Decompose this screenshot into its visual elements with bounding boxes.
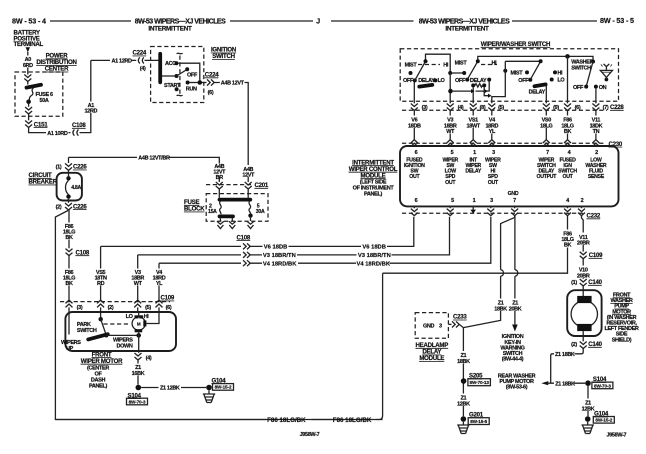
svg-text:(5): (5)	[145, 305, 151, 311]
svg-text:A4B 12VT/BR: A4B 12VT/BR	[138, 156, 170, 162]
connector C108 on A1 10RD	[73, 130, 79, 136]
svg-text:TERMINAL: TERMINAL	[14, 41, 44, 48]
C109 chevron pin 2	[97, 300, 104, 307]
svg-text:1: 1	[473, 150, 476, 156]
svg-text:6: 6	[415, 198, 418, 204]
svg-text:8W - 53 - 4: 8W - 53 - 4	[12, 17, 46, 26]
svg-text:(8W-44-4): (8W-44-4)	[502, 357, 524, 363]
svg-text:MODULE: MODULE	[419, 355, 444, 362]
wipers up contact bar	[88, 334, 108, 339]
svg-text:BK: BK	[564, 243, 572, 249]
svg-text:J: J	[316, 17, 320, 26]
svg-text:WIPER MOTOR: WIPER MOTOR	[81, 358, 123, 365]
header rule center-right	[331, 20, 414, 22]
front washer pump motor	[567, 290, 601, 336]
wire A0 6RD	[27, 52, 29, 75]
ignition mech dashed link	[177, 52, 183, 55]
arrow to ignition key-in warning switch	[512, 325, 518, 332]
wire V4 18RD/YL drop	[158, 263, 160, 300]
svg-text:7: 7	[513, 198, 516, 204]
svg-text:(6): (6)	[166, 305, 172, 311]
svg-text:SENSE: SENSE	[588, 174, 605, 180]
svg-text:A1 12RD: A1 12RD	[112, 59, 133, 65]
wire ACC to RUN junction	[178, 63, 199, 82]
C228 chevron pin 8	[470, 104, 477, 111]
svg-text:OFF: OFF	[518, 78, 529, 84]
svg-text:C109: C109	[589, 252, 603, 259]
wire breaker top drop	[68, 157, 70, 163]
svg-text:LO: LO	[126, 314, 134, 320]
C232 chevron pin 7	[511, 206, 518, 215]
connector C224 pin 6	[207, 79, 214, 85]
svg-text:C233: C233	[453, 314, 467, 321]
connector C108 chevron on V3	[243, 252, 250, 258]
svg-text:C228: C228	[610, 104, 624, 111]
svg-text:C224: C224	[205, 72, 219, 79]
junction dot ignition output	[198, 80, 203, 85]
power distribution center dashed box	[15, 72, 63, 116]
svg-text:3: 3	[439, 323, 442, 329]
connector C226 pin 2	[68, 199, 70, 203]
wire Z1 18BK washer to splice	[551, 349, 584, 384]
svg-text:PANEL): PANEL)	[89, 383, 107, 389]
svg-text:C226: C226	[73, 164, 87, 171]
svg-text:YL: YL	[156, 281, 163, 287]
svg-text:V6 18DB: V6 18DB	[362, 245, 386, 251]
C109 chevron pin 6	[156, 300, 163, 307]
svg-text:(3): (3)	[77, 305, 83, 311]
switch bus wire section1	[426, 54, 451, 71]
svg-text:C140: C140	[588, 341, 602, 348]
connector chevron inside PDC top	[24, 75, 31, 82]
svg-text:OUT: OUT	[409, 174, 420, 180]
svg-text:BLOCK: BLOCK	[184, 206, 205, 213]
connector C108 chevron on V6	[243, 243, 250, 249]
C228 chevron pin 6	[564, 104, 571, 111]
svg-text:(2): (2)	[571, 342, 577, 348]
svg-text:GND: GND	[423, 323, 435, 329]
svg-text:OUT: OUT	[488, 180, 499, 186]
svg-text:RD: RD	[97, 281, 105, 287]
wire HI1 to MIST2 dot	[450, 72, 464, 74]
connector C230 dashed line	[402, 142, 604, 144]
svg-text:18DB: 18DB	[408, 123, 421, 129]
svg-text:OFF: OFF	[573, 85, 584, 91]
splice S104	[136, 385, 142, 391]
header rule right	[512, 20, 597, 22]
svg-text:(4): (4)	[140, 66, 146, 72]
svg-text:LO: LO	[438, 78, 446, 84]
svg-text:V4 18RD/BK: V4 18RD/BK	[263, 262, 297, 268]
svg-text:TN: TN	[593, 129, 600, 135]
wire A4B 12VT to fuse block	[215, 83, 249, 166]
header rule left	[50, 20, 131, 22]
switch bus wire section2 to washer	[478, 56, 593, 61]
svg-text:12RD: 12RD	[84, 109, 97, 115]
park switch arm	[99, 317, 103, 321]
wire F86 18LG/BK breaker to motor pin 3	[68, 210, 70, 248]
svg-text:2: 2	[595, 150, 598, 156]
svg-text:8W-53 WIPERS—XJ VEHICLES: 8W-53 WIPERS—XJ VEHICLES	[419, 19, 510, 26]
connector C201 chevron right	[245, 182, 252, 189]
washer ON contact	[594, 85, 598, 89]
svg-text:SWITCH: SWITCH	[212, 53, 235, 60]
svg-text:F86 18LG/BK: F86 18LG/BK	[333, 417, 372, 424]
fuse 2 output chevrons	[217, 218, 224, 229]
svg-text:18WT: 18WT	[467, 123, 481, 129]
module pin 1 stub arrow	[472, 206, 474, 210]
svg-text:C226: C226	[73, 203, 87, 210]
svg-text:V6 18DB: V6 18DB	[264, 245, 288, 251]
internal dashed segments	[418, 64, 440, 66]
wire V51 18WT switch to module	[472, 111, 474, 140]
svg-text:A1 10RD: A1 10RD	[47, 131, 68, 137]
svg-text:(4): (4)	[146, 356, 152, 362]
svg-text:Z1 18BK: Z1 18BK	[555, 381, 575, 387]
svg-text:15A: 15A	[208, 209, 217, 215]
wire motor HI from pin 6	[146, 312, 159, 324]
C232 chevron pin 5	[447, 206, 454, 215]
C232 chevron pin 3	[487, 206, 494, 215]
wire to PDC bottom connector	[28, 103, 30, 107]
svg-text:INTERMITTENT: INTERMITTENT	[148, 26, 192, 33]
svg-text:12VT: 12VT	[242, 172, 255, 178]
section3 HI LO contacts	[553, 70, 557, 74]
connector C201 chevron left	[216, 182, 223, 189]
svg-text:20BK: 20BK	[509, 306, 522, 312]
svg-text:J958W-7: J958W-7	[300, 432, 320, 438]
svg-text:A4B 12VT: A4B 12VT	[221, 81, 245, 87]
svg-text:20BR: 20BR	[577, 241, 590, 247]
svg-text:5: 5	[451, 150, 454, 156]
wire F86 18LG/BK switch to module	[567, 111, 569, 140]
mech dashed link motor	[103, 323, 130, 325]
svg-text:3: 3	[492, 150, 495, 156]
wire V11 18DK/TN switch to module	[595, 111, 597, 140]
connector C108 chevron on F86	[66, 249, 73, 256]
wire pin7 drop	[595, 89, 597, 104]
svg-text:8W-53 WIPERS—XJ VEHICLES: 8W-53 WIPERS—XJ VEHICLES	[135, 19, 226, 26]
svg-text:GND: GND	[508, 191, 519, 197]
svg-text:HI: HI	[492, 60, 498, 66]
C232 chevron pin 4	[564, 206, 571, 215]
header rule center-left	[230, 20, 313, 22]
wire pin6 drop	[567, 56, 569, 103]
connector C201 dashed line	[206, 184, 268, 186]
wire V3 18BR/WT drop	[137, 255, 139, 300]
svg-text:START: START	[164, 83, 181, 89]
svg-text:BK: BK	[65, 281, 73, 287]
connector C109 on V11	[580, 252, 587, 259]
wire V10 20BR	[582, 259, 584, 279]
svg-text:SWITCH: SWITCH	[77, 328, 97, 334]
svg-text:WT: WT	[446, 129, 455, 135]
svg-text:LO: LO	[557, 78, 565, 84]
svg-text:SWITCH: SWITCH	[571, 65, 591, 71]
washer switch arm	[591, 60, 595, 64]
connector C109 dashed line	[60, 301, 170, 303]
wire ignition output to C224	[202, 82, 207, 84]
wire Z1 20BK to key-in switch	[515, 216, 518, 325]
svg-text:DELAY: DELAY	[529, 89, 546, 95]
svg-text:(2): (2)	[56, 204, 62, 210]
svg-text:BR: BR	[216, 175, 224, 181]
wire pin4 drop with junction	[449, 73, 451, 103]
fuse block dashed box	[206, 194, 268, 222]
connector chevron inside PDC bottom	[25, 107, 32, 114]
ignition switch dashed box	[151, 47, 204, 103]
svg-text:C232: C232	[587, 213, 601, 220]
section2 delay resistor	[471, 83, 475, 87]
svg-text:Z1 12BK: Z1 12BK	[160, 386, 180, 392]
svg-text:18LG: 18LG	[540, 123, 552, 129]
svg-text:Z1 18BK: Z1 18BK	[555, 352, 575, 358]
svg-text:(1): (1)	[56, 165, 62, 171]
wire V4 18RD/BK horizontal	[159, 217, 491, 263]
wire Z1 18BK to S205	[462, 328, 464, 385]
svg-text:MIST: MIST	[455, 61, 468, 67]
connector C232 dashed line	[402, 212, 583, 214]
wire A1 10RD	[29, 60, 91, 132]
splice S205	[461, 378, 467, 384]
svg-text:18BK: 18BK	[494, 306, 507, 312]
svg-text:BREAKER: BREAKER	[29, 179, 58, 186]
C228 chevron pin 9	[543, 104, 550, 111]
svg-text:C201: C201	[255, 182, 269, 189]
svg-text:C108: C108	[76, 249, 90, 256]
ground G104 right	[585, 416, 591, 422]
svg-text:6RD: 6RD	[23, 63, 33, 69]
svg-text:BK: BK	[65, 235, 73, 241]
C232 chevron pin 6	[411, 206, 418, 215]
wire V4 18RD/YL switch to module	[491, 111, 493, 140]
wire V3 18BR/WT switch to module	[449, 111, 451, 140]
wire V3 18BR/TN horizontal	[138, 217, 450, 255]
wire Z1 12BK to G104	[141, 387, 206, 389]
svg-text:HI: HI	[443, 62, 449, 68]
svg-text:INTERMITTENT: INTERMITTENT	[445, 26, 489, 33]
headlamp delay module dashed box	[415, 313, 448, 339]
svg-text:(6): (6)	[575, 105, 581, 111]
svg-text:WT: WT	[134, 281, 143, 287]
wire Z1 18BK from module gnd	[463, 216, 514, 328]
wire F86 18LG/BK module pin4 down	[383, 216, 568, 274]
section1 LO contact	[433, 78, 437, 82]
svg-text:18BK: 18BK	[457, 359, 470, 365]
ground G201	[461, 416, 467, 422]
wire bus to section3 pivot	[505, 60, 540, 62]
wire Z1 16BK	[137, 360, 139, 385]
svg-text:OFF: OFF	[455, 78, 466, 84]
svg-text:(2): (2)	[108, 305, 114, 311]
svg-text:(8W-53-6): (8W-53-6)	[506, 385, 528, 391]
connector C140 pin 2	[582, 331, 584, 341]
svg-text:UP: UP	[66, 346, 74, 352]
wire Z1 12BK to G201	[462, 384, 464, 417]
svg-text:F86 18LG/BK: F86 18LG/BK	[267, 417, 306, 424]
fuse 5 output chevron	[247, 218, 254, 229]
svg-text:MODULE: MODULE	[361, 172, 386, 179]
C109 chevron pin 5	[134, 300, 141, 307]
section3 DELAY bar	[535, 84, 546, 86]
intermittent wiper control module box	[400, 146, 619, 206]
battery feed arrow	[26, 47, 30, 52]
svg-text:HI: HI	[557, 71, 563, 77]
svg-text:MIST: MIST	[405, 62, 418, 68]
connector C233	[448, 323, 451, 325]
svg-text:ACC: ACC	[165, 61, 176, 67]
svg-text:(5): (5)	[498, 105, 504, 111]
wire V11 20BR module pin2 down	[582, 216, 584, 252]
wire pin9 drop	[545, 86, 547, 104]
svg-text:8W-70-3: 8W-70-3	[594, 383, 611, 388]
front wiper motor box	[65, 312, 176, 351]
connector C108 chevron on V4	[243, 260, 250, 266]
svg-text:(1): (1)	[571, 280, 577, 286]
svg-text:V3 18BR/TN: V3 18BR/TN	[263, 253, 296, 259]
svg-text:(3): (3)	[422, 105, 428, 111]
wire pin5 path	[492, 61, 506, 103]
motor pin 4 chevron	[135, 353, 142, 360]
svg-text:8W-70-3: 8W-70-3	[129, 399, 146, 404]
svg-text:DELAY: DELAY	[465, 169, 481, 175]
svg-text:PANEL): PANEL)	[364, 191, 382, 197]
circuit breaker	[57, 173, 82, 201]
wire pin3 drop	[413, 82, 415, 103]
svg-text:DELAY: DELAY	[470, 78, 487, 84]
svg-text:MIST: MIST	[511, 71, 524, 77]
svg-text:YL: YL	[489, 129, 496, 135]
wire F86 ground run right side	[55, 273, 382, 419]
svg-text:12BK: 12BK	[582, 406, 595, 412]
washer nozzle icon	[600, 64, 612, 78]
wire resistor left to pin 8	[472, 87, 474, 103]
svg-text:50A: 50A	[40, 98, 49, 104]
svg-text:C224: C224	[133, 50, 147, 57]
connector C224 pin 4	[138, 57, 144, 63]
C232 chevron pin 2	[578, 206, 585, 215]
wire V55 18TN/RD drop	[100, 246, 102, 299]
wire A4B 12VT/BR circuit breaker feed	[69, 157, 220, 163]
svg-text:C108: C108	[72, 122, 86, 129]
C228 chevron pin 4	[447, 104, 454, 111]
svg-text:8W - 53 - 5: 8W - 53 - 5	[600, 16, 634, 25]
svg-text:V3 18BR/TN: V3 18BR/TN	[358, 253, 391, 259]
wiper/washer switch dashed box	[400, 49, 618, 101]
svg-text:HI: HI	[144, 314, 150, 320]
svg-text:OFF: OFF	[187, 72, 198, 78]
wire resistor right to pin5 arrow	[484, 87, 488, 96]
splice S104 right	[585, 380, 591, 386]
park switch feed wire	[68, 312, 70, 335]
svg-text:OUTPUT: OUTPUT	[537, 174, 558, 180]
ignition switch contact bar	[158, 54, 162, 83]
svg-text:(9): (9)	[553, 105, 559, 111]
svg-text:30A: 30A	[256, 209, 265, 215]
svg-text:BK: BK	[564, 129, 572, 135]
ground G104 left	[206, 385, 212, 391]
C228 chevron pin 7	[592, 104, 599, 111]
wire Z1 12BK to G104 right	[587, 386, 589, 416]
svg-text:DOWN: DOWN	[117, 343, 133, 349]
svg-text:8W-15-5: 8W-15-5	[470, 419, 487, 424]
junction dot bus pin6	[565, 54, 570, 59]
svg-text:OUT: OUT	[562, 174, 573, 180]
svg-text:C109: C109	[161, 295, 175, 302]
wire arm to motor bottom junction	[106, 334, 138, 336]
connector C228 dashed line	[402, 109, 607, 111]
svg-text:(8): (8)	[480, 105, 486, 111]
wire V50 18LG switch to module	[545, 111, 547, 140]
svg-text:SHIELD): SHIELD)	[612, 337, 632, 343]
svg-text:C140: C140	[588, 279, 602, 286]
C228 chevron pin 5	[488, 104, 495, 111]
svg-text:(4): (4)	[458, 105, 464, 111]
svg-text:8W-70-13: 8W-70-13	[470, 380, 490, 385]
svg-text:6: 6	[415, 150, 418, 156]
svg-text:4.8A: 4.8A	[71, 185, 81, 191]
svg-text:J958W-7: J958W-7	[607, 433, 627, 439]
svg-text:RUN: RUN	[186, 86, 197, 92]
svg-text:8W-15-2: 8W-15-2	[595, 418, 612, 423]
svg-text:7: 7	[546, 150, 549, 156]
wire A1 12RD	[84, 59, 159, 115]
wire junction to pin8 arrow and delay drop	[453, 81, 490, 91]
svg-text:(7): (7)	[603, 105, 609, 111]
wire F86 branch to ground run	[55, 211, 382, 420]
svg-text:WIPER/WASHER SWITCH: WIPER/WASHER SWITCH	[481, 41, 550, 48]
C109 chevron pin 3	[66, 300, 73, 307]
svg-text:1: 1	[473, 198, 476, 204]
fuse 6 element	[27, 85, 42, 88]
svg-text:C108: C108	[237, 234, 251, 241]
svg-text:OUT: OUT	[445, 180, 456, 186]
wire V6 18DB switch to module	[413, 111, 415, 140]
svg-text:OFF: OFF	[403, 78, 414, 84]
svg-text:16BK: 16BK	[132, 371, 145, 377]
svg-text:C151: C151	[34, 121, 48, 128]
svg-text:M: M	[137, 322, 141, 327]
svg-text:8W-15-2: 8W-15-2	[215, 385, 232, 390]
svg-text:ON: ON	[599, 85, 607, 91]
svg-text:5: 5	[451, 198, 454, 204]
connector C151	[25, 121, 32, 128]
svg-text:12BK: 12BK	[457, 401, 470, 407]
C228 chevron pin 3	[411, 104, 418, 111]
wire Z1 18BK rear washer run	[541, 381, 548, 385]
svg-text:V4 18RD/BK: V4 18RD/BK	[357, 262, 391, 268]
svg-text:(6): (6)	[208, 90, 214, 96]
svg-text:2: 2	[581, 198, 584, 204]
wire V6 18DB horizontal	[101, 217, 414, 247]
wire bar to arm pivot	[162, 75, 175, 77]
C230 chevrons	[411, 140, 418, 147]
fuse block bus bar	[220, 198, 251, 202]
svg-text:3: 3	[490, 198, 493, 204]
